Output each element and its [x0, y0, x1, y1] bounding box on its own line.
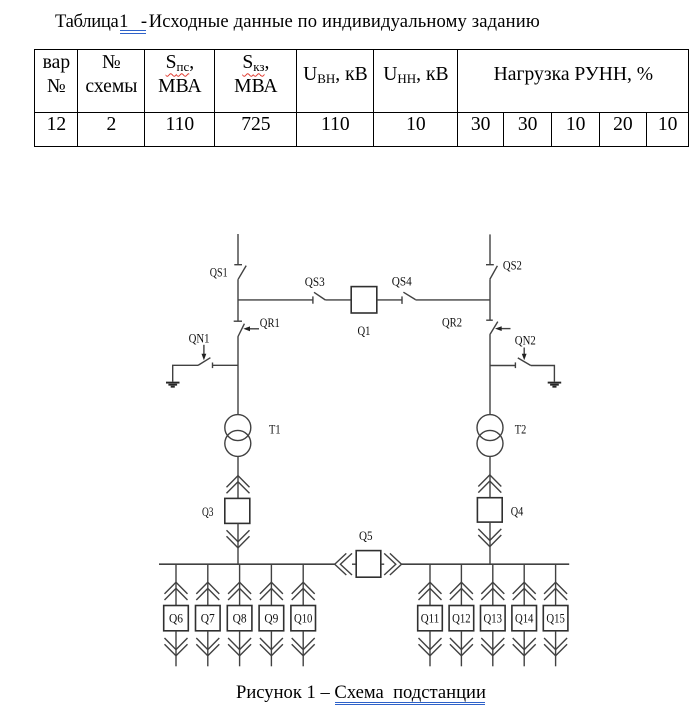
plug-in contact chevrons below Q3 [227, 530, 250, 542]
wire: left bus riser between QS1 and QR1 [237, 279, 239, 321]
svg-text:QS3: QS3 [305, 275, 325, 289]
svg-text:QR1: QR1 [260, 316, 280, 330]
breaker QR1 blade [238, 324, 245, 337]
wire: Q5 box to chevrons [381, 563, 384, 565]
data table [34, 49, 689, 147]
breaker Q3 [225, 498, 250, 523]
breaker QR1 drive arrow [249, 328, 260, 330]
outgoing feeder Q13 [481, 564, 506, 666]
outgoing feeder Q11 [418, 564, 443, 666]
figure caption [236, 684, 486, 703]
earthing switch QN2 drive arrow [523, 348, 525, 355]
svg-text:Т2: Т2 [515, 422, 527, 436]
wire: Q3 to busbar [237, 523, 239, 564]
wire: left incoming line [237, 234, 239, 265]
svg-text:QS4: QS4 [392, 275, 413, 289]
wire: chevrons to Q5 box [352, 563, 356, 565]
outgoing feeder Q12 [449, 564, 474, 666]
wire: left riser from QR1 to transformer T1 [237, 337, 239, 415]
wire: QN2 to ground [531, 366, 555, 382]
wire [175, 631, 177, 667]
svg-text:Q7: Q7 [201, 611, 215, 625]
wire: right riser between QS2 and QR2 [489, 279, 491, 320]
chevrons [165, 582, 188, 594]
busbar (right section) [402, 563, 570, 565]
svg-text:Q15: Q15 [546, 611, 565, 625]
svg-text:QN2: QN2 [515, 333, 536, 347]
plug-in contact chevrons below Q4 [478, 529, 501, 541]
wire: QS4 to right riser [416, 299, 491, 301]
svg-text:Q9: Q9 [264, 611, 278, 625]
disconnector QS2 contact tick [486, 264, 494, 266]
outgoing feeder Q10 [291, 564, 316, 666]
grammar double-underline under caption words [335, 702, 485, 703]
wire: T1 to breaker Q3 [237, 456, 239, 498]
wire: right riser from QR2 to transformer T2 [489, 335, 491, 415]
busbar (left section) [159, 563, 335, 565]
svg-text:QN1: QN1 [189, 332, 210, 346]
bus tie Q5 right chevrons [384, 553, 396, 575]
plug-in contact chevrons above Q4 [478, 475, 501, 487]
svg-text:Q8: Q8 [233, 611, 247, 625]
outgoing feeder Q7 [196, 564, 221, 666]
wire: Q4 to busbar [489, 522, 491, 564]
ground (left) [166, 383, 180, 387]
earthing switch QN2 blade [518, 358, 531, 366]
breaker QR2 drive arrow [500, 328, 510, 330]
grammar double-underline under "1 -" [120, 30, 146, 31]
svg-text:Q6: Q6 [169, 611, 183, 625]
breaker Q1 [351, 287, 377, 313]
wire [175, 564, 177, 605]
earthing switch QN1 drive arrow [203, 345, 205, 355]
outgoing feeder Q15 [543, 564, 568, 666]
disconnector QS4 contact tick [401, 296, 403, 304]
svg-text:Q5: Q5 [359, 529, 373, 543]
bus tie Q5 left chevrons [335, 553, 347, 575]
transformer T1 [225, 415, 251, 441]
wire: T2 to breaker Q4 [489, 456, 491, 497]
wire: QS3 to breaker Q1 [325, 299, 351, 301]
outgoing feeder Q14 [512, 564, 537, 666]
disconnector QS2 blade [490, 266, 498, 280]
svg-text:Q10: Q10 [294, 611, 313, 625]
svg-text:Q1: Q1 [358, 324, 371, 338]
svg-text:Q14: Q14 [515, 611, 534, 625]
plug-in contact chevrons above Q3 [227, 476, 250, 488]
bus tie breaker Q5 [356, 551, 381, 578]
breaker Q6 box [164, 606, 189, 631]
transformer T2 [477, 415, 503, 441]
outgoing feeder Q6 [164, 564, 189, 666]
svg-text:QS1: QS1 [210, 265, 228, 279]
earthing switch QN1 blade [198, 358, 210, 366]
wire: QN1 branch [213, 364, 239, 366]
ground (right) [548, 383, 562, 387]
outgoing feeder Q8 [227, 564, 252, 666]
svg-text:QS2: QS2 [503, 258, 522, 272]
svg-text:Q4: Q4 [511, 505, 524, 519]
disconnector QS1 contact tick [234, 264, 242, 266]
breaker QR2 blade [490, 322, 498, 335]
earthing switch QN1 contact tick [212, 363, 214, 369]
breaker QR2 contact tick [486, 319, 493, 321]
wire: Q1 to QS4 [377, 299, 402, 301]
wire: right incoming line [489, 234, 491, 264]
disconnector QS3 blade [314, 292, 325, 300]
svg-text:Т1: Т1 [269, 422, 281, 436]
outgoing feeder Q9 [259, 564, 284, 666]
svg-text:QR2: QR2 [442, 316, 462, 330]
wire: HV tie from left riser to QS3 [238, 299, 313, 301]
svg-text:Q13: Q13 [484, 611, 503, 625]
chevrons down [165, 638, 188, 650]
wire: QN2 branch [490, 365, 515, 367]
title paragraph [55, 13, 540, 32]
disconnector QS3 contact tick [312, 296, 314, 303]
svg-text:Q3: Q3 [202, 505, 214, 519]
earthing switch QN2 contact tick [514, 362, 516, 368]
breaker QR1 contact tick [234, 320, 242, 322]
svg-text:Q12: Q12 [452, 611, 471, 625]
disconnector QS1 blade [238, 266, 246, 280]
svg-text:Q11: Q11 [421, 611, 440, 625]
wire: QN1 to ground [173, 365, 198, 381]
disconnector QS4 blade [403, 292, 415, 299]
breaker Q4 [477, 498, 502, 522]
